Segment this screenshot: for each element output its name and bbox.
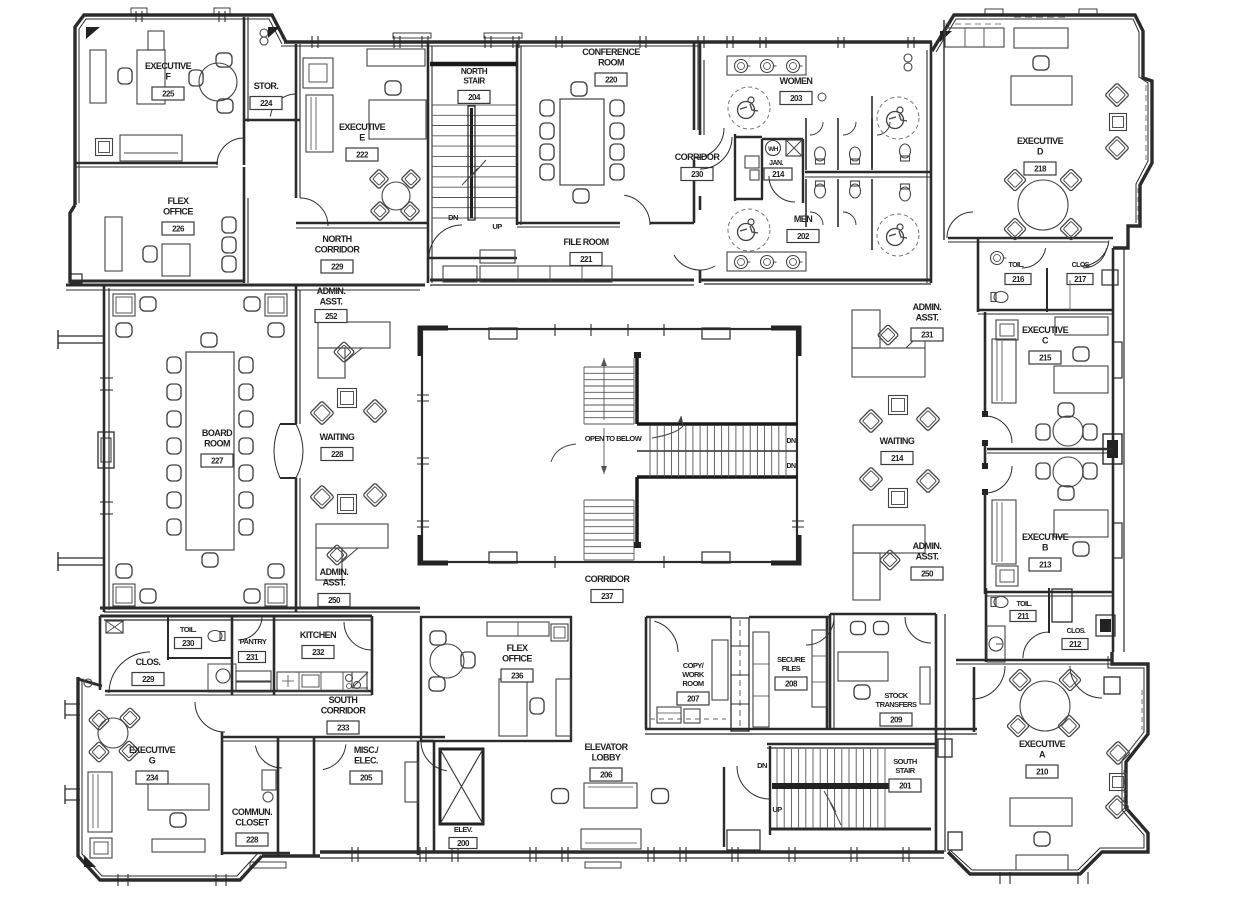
door arc conference NE corridor <box>694 128 724 158</box>
door arc exec A left <box>972 666 1005 699</box>
svg-text:STOR.: STOR. <box>254 81 279 91</box>
west wall kitchen band <box>99 616 102 690</box>
room EXECUTIVE B walls <box>984 492 987 594</box>
svg-text:MEN: MEN <box>794 214 812 224</box>
svg-text:CLOS.: CLOS. <box>1072 262 1091 269</box>
svg-text:NORTH: NORTH <box>461 67 488 76</box>
svg-text:C: C <box>1042 336 1049 346</box>
door arc south stair <box>737 766 770 799</box>
TOIL 230 sink <box>216 669 230 683</box>
svg-text:MISC./: MISC./ <box>354 745 379 755</box>
kitchen band bottom wall / corridor top <box>105 690 372 693</box>
board chairs right <box>239 357 253 373</box>
south band bottom wall <box>645 728 977 731</box>
outer wall SW tower <box>78 677 262 880</box>
outer wall west boardroom section <box>103 286 106 612</box>
svg-text:228: 228 <box>331 450 344 459</box>
men stall partitions <box>805 179 807 227</box>
women stall partitions <box>805 118 807 170</box>
exec F round table <box>199 63 237 101</box>
exec D wall chairs east <box>1105 83 1129 107</box>
exec A chair <box>1034 832 1050 846</box>
room FILE ROOM 221 walls <box>430 279 694 282</box>
flex office desk <box>162 244 190 276</box>
corner post SE tower <box>1104 677 1120 694</box>
door jamb caps <box>982 411 988 417</box>
kitchen sink <box>302 675 319 687</box>
svg-text:215: 215 <box>1039 353 1052 362</box>
exec A desk <box>1010 798 1072 826</box>
wall exec A left upper <box>973 667 976 732</box>
exec G cabinet <box>90 838 112 858</box>
door arc copy room <box>654 621 678 652</box>
east wall window post center <box>1103 434 1122 464</box>
svg-text:221: 221 <box>580 255 593 264</box>
room ELEV 200 shaft <box>440 749 483 824</box>
exec F desk <box>137 50 165 104</box>
room SECURE FILES walls <box>749 616 830 619</box>
svg-text:ADMIN.: ADMIN. <box>320 567 349 577</box>
south stair center rail <box>772 783 891 789</box>
svg-text:ROOM: ROOM <box>204 439 230 449</box>
stair shelf <box>480 250 515 263</box>
svg-text:SOUTH: SOUTH <box>893 757 917 766</box>
svg-text:204: 204 <box>468 93 481 102</box>
door arc exec D east <box>1081 240 1109 266</box>
door arc STOR <box>270 94 296 116</box>
exec A top wall <box>956 659 1111 662</box>
svg-text:230: 230 <box>691 170 704 179</box>
atrium ticks right <box>792 520 804 522</box>
exec D credenza <box>1014 28 1068 48</box>
waiting 214 group upper <box>859 409 883 433</box>
atrium corner bracket NW <box>420 328 448 356</box>
SW tower west window sills <box>65 703 80 705</box>
exec G door arc <box>195 702 225 732</box>
admin asst 255 chair <box>326 544 347 565</box>
outer wall NE tower <box>932 15 1152 248</box>
exec C round table <box>1053 416 1083 446</box>
atrium stair wall right of upper flight <box>635 355 639 424</box>
door arc flex office 236 <box>421 741 447 771</box>
svg-text:DN: DN <box>786 463 796 470</box>
room EXECUTIVE C walls <box>984 312 987 416</box>
west wall window ticks <box>100 377 113 379</box>
exec C chair <box>1073 347 1089 361</box>
exec B bookcase <box>992 500 1016 564</box>
south corridor bottom wall <box>222 736 445 739</box>
stock transfers chair <box>854 685 870 699</box>
north stair top heavy wall <box>430 62 516 67</box>
svg-text:236: 236 <box>511 671 524 680</box>
atrium column boxes bottom <box>489 552 517 563</box>
svg-text:214: 214 <box>772 170 785 179</box>
room FLEX OFFICE 236 walls <box>421 617 571 741</box>
svg-text:202: 202 <box>797 232 810 241</box>
outer wall north strip y=42 from tower to corridor <box>284 40 700 43</box>
file room shelves <box>480 266 612 282</box>
svg-text:JAN.: JAN. <box>769 160 783 167</box>
exec F side table <box>96 139 113 156</box>
svg-text:231: 231 <box>246 653 259 662</box>
board corner chairs SE <box>265 584 287 606</box>
svg-text:A: A <box>1039 750 1046 760</box>
commun closet fixture <box>262 770 276 790</box>
svg-text:COPY/: COPY/ <box>683 661 705 670</box>
door hardware circles STOR top <box>260 29 268 37</box>
atrium column boxes top <box>489 328 517 339</box>
svg-text:209: 209 <box>890 715 903 724</box>
svg-text:TRANSFERS: TRANSFERS <box>876 700 917 709</box>
svg-text:EXECUTIVE: EXECUTIVE <box>1019 739 1066 749</box>
exec C cabinet <box>996 320 1018 340</box>
exec G bookcase <box>88 772 112 832</box>
kitchen burners <box>346 675 353 682</box>
svg-text:EXECUTIVE: EXECUTIVE <box>1022 532 1069 542</box>
elev lobby west wall <box>433 741 436 852</box>
svg-text:234: 234 <box>146 773 159 782</box>
svg-text:207: 207 <box>687 694 700 703</box>
door arc toil 211 <box>1023 632 1049 658</box>
east bay window lower <box>1113 523 1122 558</box>
corner post NE tower triangle <box>940 31 952 42</box>
svg-text:229: 229 <box>142 675 155 684</box>
west bay window sill lower <box>58 557 104 559</box>
door arc men entry <box>674 255 715 270</box>
board corner chairs NW <box>113 294 135 316</box>
atrium ticks left <box>417 394 429 396</box>
conference chairs top bottom <box>571 82 587 96</box>
board corner chairs SW <box>113 584 135 606</box>
exec C credenza top <box>1055 317 1108 335</box>
svg-text:230: 230 <box>182 639 195 648</box>
svg-text:NORTH: NORTH <box>322 234 351 244</box>
window mullions south wall <box>351 847 353 862</box>
svg-text:250: 250 <box>328 596 341 605</box>
exec A wall chairs east <box>1106 741 1130 765</box>
svg-text:CLOS.: CLOS. <box>1067 628 1086 635</box>
flex 236 chairs <box>430 631 446 645</box>
svg-text:237: 237 <box>601 592 614 601</box>
board table <box>186 352 234 550</box>
west wall window box <box>98 432 114 468</box>
exec C bookcase <box>992 339 1016 403</box>
exec F table chairs <box>216 53 232 67</box>
svg-text:225: 225 <box>162 89 175 98</box>
women stall door arcs <box>810 122 823 135</box>
atrium corner bracket SW <box>420 535 448 563</box>
corner post STOR NW triangle <box>268 27 280 38</box>
door arc exec C <box>985 416 1012 443</box>
door arc exec E <box>300 198 328 226</box>
room COPY WORK 207 walls <box>645 617 648 729</box>
atrium stair wall below horizontal flights <box>635 477 639 545</box>
svg-text:ADMIN.: ADMIN. <box>317 286 346 296</box>
door arc conference SE <box>624 195 650 225</box>
atrium stair horizontal flights <box>637 422 797 426</box>
svg-text:EXECUTIVE: EXECUTIVE <box>1017 136 1064 146</box>
NE tower window dashes <box>1014 16 1068 18</box>
wall TOIL/CLOS divider <box>167 616 169 660</box>
admin asst 252 L-desk <box>318 322 390 348</box>
svg-text:DN: DN <box>757 761 767 770</box>
svg-text:EXECUTIVE: EXECUTIVE <box>339 122 386 132</box>
svg-text:WAITING: WAITING <box>320 432 355 442</box>
wall corridor band bottom y=285 <box>66 284 425 287</box>
admin asst 231 chair <box>877 324 898 345</box>
svg-text:216: 216 <box>1012 275 1025 284</box>
svg-text:LOBBY: LOBBY <box>592 753 621 763</box>
men sinks <box>735 256 748 269</box>
svg-text:ADMIN.: ADMIN. <box>913 541 942 551</box>
exec E bookcase <box>306 95 333 152</box>
svg-text:233: 233 <box>337 723 350 732</box>
svg-text:UP: UP <box>772 805 782 814</box>
women door hardware circle <box>818 93 826 101</box>
men stall door arcs <box>810 212 823 225</box>
men toilets <box>815 181 826 198</box>
women toilets <box>815 147 826 164</box>
room STOR 224 walls <box>244 119 300 122</box>
door arc north stair <box>429 225 462 258</box>
kitchen band top wall <box>100 615 372 618</box>
exec A credenza <box>1016 855 1068 870</box>
svg-text:CORRIDOR: CORRIDOR <box>315 245 361 255</box>
outer wall NW tower <box>75 15 286 205</box>
wall women accessible <box>871 96 873 168</box>
exec D table chairs <box>1004 169 1027 192</box>
svg-text:250: 250 <box>921 569 934 578</box>
exec F desk chair <box>118 68 132 84</box>
flex office chair <box>143 246 157 262</box>
room EXECUTIVE F walls <box>243 17 246 122</box>
corridor east wall <box>734 134 736 201</box>
svg-text:PANTRY: PANTRY <box>240 637 267 646</box>
chase wall between copy and secure <box>731 618 749 731</box>
svg-text:E: E <box>359 133 365 143</box>
exec E desk <box>369 100 426 139</box>
svg-text:214: 214 <box>891 454 904 463</box>
conference chairs right <box>610 100 624 116</box>
window mullions north restroom wall <box>759 37 761 48</box>
svg-text:UP: UP <box>492 222 502 231</box>
exec B desk <box>1054 510 1108 537</box>
TOIL 211 water heater closet <box>987 626 1005 662</box>
door arc secure files <box>806 617 834 645</box>
exec A round table <box>1020 681 1070 731</box>
room PANTRY 231 walls <box>273 616 276 695</box>
room JAN 214 walls <box>761 139 763 199</box>
door arc clos 229 <box>109 652 150 693</box>
conference chairs left <box>540 100 554 116</box>
atrium corner bracket NE <box>771 328 799 356</box>
door arc women entry <box>700 137 732 169</box>
outer wall west upper (flex office) <box>70 205 75 283</box>
exec G chair <box>170 813 186 827</box>
atrium ticks bottom <box>554 556 556 568</box>
door arc exec D west <box>947 212 973 238</box>
exec C desk <box>1054 366 1108 393</box>
open to below leader right <box>652 416 683 438</box>
svg-text:ELEV.: ELEV. <box>454 825 473 834</box>
board chairs left <box>167 357 181 373</box>
svg-text:WAITING: WAITING <box>880 436 915 446</box>
svg-text:ASST.: ASST. <box>320 297 343 307</box>
exec E round table <box>382 182 410 210</box>
kitchen counter <box>277 672 367 691</box>
svg-text:203: 203 <box>790 94 803 103</box>
outer wall SE tower right zigzag <box>948 652 1148 874</box>
svg-text:208: 208 <box>785 679 798 688</box>
east bay window upper <box>1113 342 1122 378</box>
outer wall north restrooms top <box>700 40 932 43</box>
svg-text:EXECUTIVE: EXECUTIVE <box>1022 325 1069 335</box>
waiting 228 sofa group upper <box>310 401 334 425</box>
restroom bottom wall <box>700 279 931 282</box>
corner post flex office SW <box>70 274 82 283</box>
corner post exec F NW <box>86 27 100 39</box>
exec G credenza <box>152 839 205 852</box>
outer wall SE tower inner line <box>950 656 1144 870</box>
stock transfers desk <box>838 652 888 681</box>
svg-text:218: 218 <box>1034 164 1047 173</box>
janitor fixtures left <box>745 156 759 168</box>
TOIL 216 sink <box>991 252 1004 265</box>
svg-text:WH: WH <box>768 146 779 153</box>
svg-text:228: 228 <box>246 835 259 844</box>
svg-text:ELEC.: ELEC. <box>354 756 378 766</box>
svg-text:CLOS.: CLOS. <box>136 657 161 667</box>
exec D round table <box>1018 180 1068 230</box>
svg-text:B: B <box>1042 543 1049 553</box>
women sink counter <box>727 56 806 75</box>
room TOIL 211 walls <box>985 588 988 662</box>
board corner chairs NE <box>265 294 287 316</box>
door arc stock transfers <box>905 617 931 643</box>
room KITCHEN 232 walls <box>371 616 374 695</box>
elevator lobby credenza <box>581 829 641 849</box>
exec D chair <box>1033 56 1049 70</box>
east wall window post lower <box>1096 615 1115 636</box>
atrium walls <box>422 329 797 562</box>
flex 236 cabinet <box>551 624 568 641</box>
exec E table chairs <box>369 169 389 189</box>
svg-text:227: 227 <box>211 456 224 465</box>
flex office file cabinet <box>105 217 122 271</box>
svg-text:200: 200 <box>457 839 470 848</box>
exec D side table east <box>1110 114 1127 131</box>
exec D bottom wall <box>948 237 1113 240</box>
south stair break line <box>824 791 841 825</box>
svg-text:ASST.: ASST. <box>323 578 346 588</box>
flex 236 table 2 <box>556 679 571 736</box>
restroom west wall <box>699 42 702 135</box>
svg-text:STAIR: STAIR <box>463 77 485 86</box>
room COMMUN CLOSET walls <box>221 732 224 855</box>
stock transfers chairs top <box>851 621 866 634</box>
exec E chair <box>385 81 401 95</box>
flex office corridor chairs <box>222 217 236 233</box>
west bay window sill upper <box>58 335 104 337</box>
exec E credenza <box>367 49 425 66</box>
svg-text:DN: DN <box>448 213 458 222</box>
east double wall stock/stair vs exec A <box>935 614 938 852</box>
secure files cabinets left <box>753 632 769 727</box>
hatch box NW kitchen band <box>106 621 123 633</box>
door arc CLOS217 <box>1083 248 1107 268</box>
exec B bottom wall <box>985 591 1113 594</box>
svg-text:OFFICE: OFFICE <box>502 654 532 664</box>
svg-text:COMMUN.: COMMUN. <box>232 807 272 817</box>
svg-text:212: 212 <box>1069 640 1082 649</box>
admin asst 230 chair <box>879 549 900 570</box>
open to below leader left <box>551 444 576 462</box>
SW tower corner fixture <box>84 679 92 687</box>
women accessible toilet <box>900 144 911 161</box>
south wall window caps <box>250 862 286 868</box>
north stair bottom wall <box>428 257 517 260</box>
atrium corner bracket SE <box>771 535 799 563</box>
wall lobby east <box>723 767 725 847</box>
svg-text:KITCHEN: KITCHEN <box>300 630 336 640</box>
room BOARD ROOM walls <box>295 286 298 424</box>
svg-text:G: G <box>149 756 156 766</box>
exec C table chairs <box>1058 403 1074 417</box>
svg-text:CONFERENCE: CONFERENCE <box>582 47 640 57</box>
flex 236 desk chair <box>530 698 544 714</box>
men accessible symbol main <box>728 209 770 251</box>
east wall window post upper <box>1102 270 1118 285</box>
men sink counter <box>727 252 806 271</box>
board room double door <box>296 424 303 478</box>
svg-text:ROOM: ROOM <box>682 679 703 688</box>
atrium dimension line <box>603 358 605 474</box>
corner post SW tower triangle <box>84 855 96 867</box>
SE tower window dashes <box>1141 690 1143 730</box>
admin asst 252 chair <box>333 341 354 362</box>
svg-text:FLEX: FLEX <box>507 643 528 653</box>
svg-text:222: 222 <box>356 150 369 159</box>
flex 236 credenza <box>487 622 549 636</box>
svg-text:DN: DN <box>786 438 796 445</box>
svg-text:TOIL.: TOIL. <box>1016 601 1032 608</box>
svg-text:FILE ROOM: FILE ROOM <box>563 237 608 247</box>
svg-text:229: 229 <box>331 262 344 271</box>
svg-text:OFFICE: OFFICE <box>163 207 193 217</box>
svg-text:217: 217 <box>1074 275 1087 284</box>
misc elec panel <box>405 762 418 802</box>
svg-text:WORK: WORK <box>682 670 705 679</box>
board chairs top bottom <box>201 333 217 347</box>
exec G desk <box>148 784 209 810</box>
exec B chair <box>1073 542 1089 556</box>
svg-text:232: 232 <box>312 648 325 657</box>
svg-text:TOIL.: TOIL. <box>1008 262 1024 269</box>
south stair treads <box>776 749 778 828</box>
room FLEX OFFICE 226 walls <box>70 280 244 283</box>
svg-text:WOMEN: WOMEN <box>780 76 813 86</box>
flex 236 desk vertical <box>499 679 527 736</box>
copy room dashed line <box>650 718 726 720</box>
svg-text:206: 206 <box>600 770 613 779</box>
conference table <box>560 99 604 185</box>
exec E cabinet small <box>303 58 333 88</box>
svg-text:BOARD: BOARD <box>202 428 233 438</box>
admin asst 231 L-desk <box>852 310 880 348</box>
svg-text:ADMIN.: ADMIN. <box>913 302 942 312</box>
women accessible stall symbol <box>728 87 770 129</box>
outer wall east side double <box>1112 248 1115 652</box>
